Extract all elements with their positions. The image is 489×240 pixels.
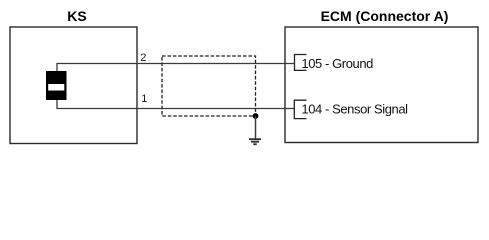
wire pin 1 to 104 (bottom) — [57, 100, 295, 109]
pin bracket 105 — [295, 55, 307, 71]
wire pin 2 to 105 (top) — [57, 64, 295, 72]
ground symbol — [249, 139, 261, 144]
svg-text:104 - Sensor Signal: 104 - Sensor Signal — [301, 101, 408, 116]
ground stem — [255, 116, 257, 139]
KS box — [10, 27, 137, 144]
ECM box — [285, 27, 478, 143]
svg-text:KS: KS — [67, 8, 86, 24]
pin bracket 104 — [294, 100, 306, 118]
shield (dashed box) — [162, 56, 256, 116]
svg-text:105 - Ground: 105 - Ground — [301, 56, 373, 71]
svg-text:2: 2 — [140, 52, 146, 64]
knock sensor piezo element — [46, 71, 67, 100]
svg-text:1: 1 — [141, 93, 147, 105]
shield ground junction dot — [253, 113, 259, 119]
svg-text:ECM (Connector A): ECM (Connector A) — [321, 8, 449, 24]
